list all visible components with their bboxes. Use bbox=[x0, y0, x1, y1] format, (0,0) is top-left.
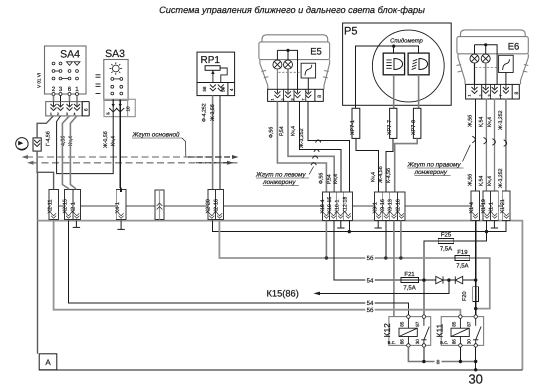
svg-text:Х9-1: Х9-1 bbox=[372, 202, 378, 213]
headlight E5 housing bbox=[259, 35, 330, 90]
wire E6 lamp2 to connector bbox=[485, 63, 487, 84]
wire K11-30 drop to 30 line bbox=[475, 347, 477, 370]
wire ground rail (gray) bbox=[38, 221, 523, 370]
indicator icon high beam bbox=[408, 53, 429, 75]
svg-text:Система управления ближнего и: Система управления ближнего и дальнего с… bbox=[159, 5, 425, 15]
wire corrector to pin7 bbox=[307, 78, 309, 89]
E6 pin numbers bbox=[468, 95, 503, 97]
svg-text:Х12-18: Х12-18 bbox=[342, 197, 348, 214]
wire K12-30 drop bbox=[423, 347, 425, 361]
ground point symbol (body mass circle) bbox=[16, 138, 28, 150]
svg-text:Х2-15: Х2-15 bbox=[63, 199, 69, 213]
svg-text:10: 10 bbox=[126, 106, 131, 112]
node on 30 line bbox=[474, 368, 477, 371]
label 5b upper bbox=[365, 254, 374, 262]
SA4 pin stubs bbox=[54, 96, 78, 102]
svg-text:F21: F21 bbox=[404, 271, 415, 278]
svg-text:7: 7 bbox=[499, 95, 503, 97]
svg-text:Кч,4: Кч,4 bbox=[487, 176, 493, 186]
K11 pins bbox=[459, 315, 478, 347]
node on 8 line (K11-86) bbox=[459, 360, 462, 363]
wire X2-15 54 line to K12 pin85 bbox=[68, 221, 408, 315]
svg-text:Ж,5б: Ж,5б bbox=[468, 115, 474, 127]
label 5b lower bbox=[365, 306, 374, 314]
wire 8 line (coil grounds) bbox=[408, 347, 475, 361]
svg-text:F20: F20 bbox=[462, 291, 468, 301]
connector under SA3 bbox=[104, 99, 135, 116]
wire K11-86 drop bbox=[459, 347, 461, 361]
label 8 bbox=[435, 358, 442, 366]
ground below X2-1 bbox=[73, 221, 80, 228]
ground zone box A bbox=[39, 354, 57, 370]
svg-text:1: 1 bbox=[468, 95, 472, 97]
svg-text:RP1: RP1 bbox=[201, 55, 221, 66]
fuse F25 bbox=[438, 232, 454, 253]
indicator icon low beam bbox=[383, 53, 404, 75]
connector X10-1 bbox=[334, 192, 344, 221]
SA4 pin circles bbox=[52, 93, 79, 96]
ground below X9-1 bbox=[375, 221, 382, 228]
wire X9-13 to K12 bbox=[393, 221, 395, 317]
lamp E6 high beam bbox=[481, 54, 490, 63]
fuse F20 bbox=[462, 287, 479, 302]
svg-text:Ж-3,252: Ж-3,252 bbox=[299, 128, 305, 148]
svg-text:Ж-3,252: Ж-3,252 bbox=[498, 168, 504, 188]
svg-text:1: 1 bbox=[50, 112, 52, 116]
svg-text:Х2-16: Х2-16 bbox=[214, 199, 220, 213]
svg-text:5б: 5б bbox=[367, 307, 374, 314]
svg-text:58: 58 bbox=[202, 86, 207, 91]
relay RP1 bbox=[197, 52, 235, 96]
wire RP1 to X2-20 bbox=[212, 96, 214, 190]
mechanical link dashed (E6) bbox=[476, 67, 499, 69]
svg-text:6: 6 bbox=[83, 108, 88, 111]
wire E6 pin7 to X1-21 bbox=[505, 98, 507, 191]
main harness black dash overlay bbox=[188, 157, 232, 163]
svg-text:ХР7-8: ХР7-8 bbox=[411, 120, 417, 135]
E5 connector bbox=[268, 89, 324, 101]
svg-text:К-4,5б: К-4,5б bbox=[386, 168, 392, 183]
svg-text:Р5: Р5 bbox=[344, 26, 357, 38]
leader line (main harness) bbox=[182, 138, 186, 157]
wire X10-15 54 line through F21 to diode bbox=[334, 221, 436, 281]
wire body line 30 bbox=[39, 369, 522, 371]
wire XP7-8 to X9-13 bbox=[395, 138, 418, 192]
connector X1-1 bbox=[488, 191, 498, 221]
wire E6 pin3 to X1-1 bbox=[494, 98, 496, 191]
svg-text:ХР7-1: ХР7-1 bbox=[350, 120, 356, 135]
wire icon2 to XP7-8 bbox=[418, 75, 420, 109]
wire XP7-7 to X9-16 bbox=[386, 138, 393, 192]
switch SA3 bbox=[104, 48, 128, 100]
svg-text:Кч,4: Кч,4 bbox=[487, 117, 493, 127]
SA3 position marks bbox=[96, 75, 101, 94]
svg-text:3: 3 bbox=[66, 112, 68, 116]
inline connector (chevron up) bbox=[155, 190, 164, 220]
E6 lamp wires and node bbox=[475, 45, 498, 85]
svg-text:54: 54 bbox=[367, 300, 374, 307]
label 54 upper bbox=[365, 277, 374, 285]
wire E5 pin2 to X10-15 bbox=[288, 101, 334, 191]
svg-text:85: 85 bbox=[399, 321, 404, 327]
wire X2-16 drop to 5b line bbox=[400, 221, 402, 258]
main harness dashed lines bbox=[26, 157, 238, 163]
svg-text:5б: 5б bbox=[221, 87, 226, 92]
SA3 connector pin arrows and chevrons bbox=[109, 99, 124, 112]
svg-text:К,54: К,54 bbox=[479, 117, 485, 127]
SA3 lamp symbol bbox=[110, 62, 123, 75]
svg-text:30: 30 bbox=[467, 339, 472, 345]
node X12-18 on corrector feed bbox=[348, 230, 351, 233]
svg-text:2: 2 bbox=[57, 112, 59, 116]
headlight E6 housing bbox=[457, 30, 529, 85]
svg-text:85: 85 bbox=[451, 321, 456, 327]
svg-text:Г-4,5б: Г-4,5б bbox=[46, 131, 52, 146]
svg-text:V 01 VI: V 01 VI bbox=[37, 73, 42, 88]
svg-text:К,54: К,54 bbox=[479, 176, 485, 186]
harness bundle marks (left) bbox=[311, 140, 321, 165]
lamp E6 low beam bbox=[470, 54, 479, 63]
SA4 pin numbers 2 3 6 1 bbox=[52, 86, 80, 93]
svg-text:К11: К11 bbox=[434, 323, 444, 337]
harness bundle marks (right) bbox=[472, 136, 506, 146]
svg-text:54: 54 bbox=[367, 277, 374, 284]
E5 connector chevrons bbox=[274, 89, 311, 98]
svg-text:7: 7 bbox=[301, 99, 305, 101]
wire P5 internal feed bbox=[355, 46, 418, 108]
node X9-16 on 5b bbox=[384, 256, 387, 259]
node (E6 lamp junction) bbox=[484, 43, 487, 46]
svg-text:87: 87 bbox=[415, 321, 420, 327]
wire E5 pin3 to X10-1 bbox=[300, 101, 341, 191]
svg-text:А: А bbox=[45, 358, 51, 367]
svg-text:Х2-20: Х2-20 bbox=[206, 199, 212, 213]
wire SA4 pin1 to X2-1 bbox=[70, 116, 77, 190]
instrument cluster P5 bbox=[343, 23, 452, 105]
connector XP7-8 bbox=[411, 108, 421, 138]
wire SA4 pin3 stub bbox=[60, 96, 62, 102]
svg-text:86: 86 bbox=[451, 339, 456, 345]
lamp E5 high beam bbox=[284, 60, 293, 69]
svg-text:Ф-4,252: Ф-4,252 bbox=[202, 103, 208, 122]
svg-text:Жгут основной: Жгут основной bbox=[132, 132, 181, 139]
label Жгут по правому лонжерону bbox=[407, 162, 464, 177]
SA4 contact grid bbox=[52, 62, 80, 80]
svg-text:F19: F19 bbox=[457, 249, 468, 256]
wire E5 pin7 to X12-18 bbox=[308, 101, 350, 191]
svg-text:Х10-15: Х10-15 bbox=[327, 197, 333, 214]
wire lamp1 to connector bbox=[276, 69, 278, 89]
connector X10-4 bbox=[320, 192, 330, 221]
svg-text:Ж-0,5б: Ж-0,5б bbox=[103, 131, 109, 148]
wire X1-19 drop bbox=[486, 221, 488, 232]
node F21 line on K12-87 vertical bbox=[422, 278, 425, 281]
svg-text:Х9-13: Х9-13 bbox=[388, 199, 394, 213]
svg-text:30: 30 bbox=[415, 339, 420, 345]
svg-text:Ж-3,252: Ж-3,252 bbox=[498, 110, 504, 130]
wire to K15(86) reference bbox=[319, 280, 449, 293]
label Жгут основной bbox=[132, 132, 183, 139]
wire XP7-1 to X9-1 bbox=[356, 138, 379, 192]
wire bus line (black) bbox=[49, 205, 506, 207]
svg-text:Х4-1: Х4-1 bbox=[115, 202, 121, 213]
fuse F19 bbox=[455, 249, 470, 270]
wire X1-4 to F20 and K11 pin87 bbox=[475, 221, 477, 315]
svg-text:Спидометр: Спидометр bbox=[390, 37, 423, 44]
connector X2-16 bbox=[395, 192, 405, 221]
connector X (mass wire) bbox=[33, 138, 41, 151]
svg-text:Х1-4: Х1-4 bbox=[469, 202, 475, 213]
svg-text:Ж-4,5б: Ж-4,5б bbox=[378, 166, 384, 183]
mechanical link dashed (E5) bbox=[278, 71, 301, 73]
node on 8 line bbox=[422, 360, 425, 363]
diode VD1 bbox=[436, 276, 456, 283]
svg-text:Р,54: Р,54 bbox=[326, 174, 332, 184]
svg-text:Х2-11: Х2-11 bbox=[48, 200, 54, 214]
connector chevrons under SA4 bbox=[51, 102, 81, 111]
svg-text:7,5А: 7,5А bbox=[456, 263, 468, 270]
svg-text:Х1-19: Х1-19 bbox=[481, 199, 487, 213]
wire SA4 pin2 to mass connector and X2-11 bbox=[37, 116, 54, 190]
ground below X10-1 bbox=[337, 221, 344, 228]
wire E6 pin2 to X1-19 bbox=[485, 98, 487, 191]
wire SA4 pin3 to SA3 (via bottom link) bbox=[57, 99, 114, 173]
svg-text:2: 2 bbox=[52, 86, 56, 93]
svg-text:К12: К12 bbox=[382, 323, 392, 338]
K12 pins bbox=[407, 315, 426, 347]
node between diodes bbox=[447, 278, 450, 281]
svg-text:2: 2 bbox=[281, 99, 285, 101]
svg-text:лонжерону: лонжерону bbox=[262, 179, 296, 186]
K12 contact bbox=[421, 318, 429, 343]
wire X10-4 drop to 5b line bbox=[325, 221, 327, 258]
svg-text:Ф,5б: Ф,5б bbox=[319, 173, 325, 184]
ground below X1-1 bbox=[491, 221, 498, 228]
svg-text:Ж,5б: Ж,5б bbox=[468, 174, 474, 186]
wire X2-20 5b line through F19 to K11 pin87 bbox=[219, 221, 489, 309]
svg-text:К15(86): К15(86) bbox=[267, 288, 299, 298]
relay K12 bbox=[389, 317, 431, 346]
node X1-19 junction bbox=[485, 230, 488, 233]
svg-text:Х9-16: Х9-16 bbox=[380, 199, 386, 213]
connector X2-15 bbox=[63, 190, 73, 220]
svg-text:8: 8 bbox=[317, 95, 323, 98]
diode VD2 bbox=[455, 276, 475, 283]
svg-text:2: 2 bbox=[479, 95, 483, 97]
svg-text:4: 4 bbox=[74, 112, 76, 116]
connector X2-11 bbox=[48, 190, 59, 220]
svg-text:Р,54: Р,54 bbox=[279, 126, 285, 136]
wire X2-56 line to X1-21 (corrector feed) bbox=[213, 221, 506, 232]
svg-text:Х1-1: Х1-1 bbox=[488, 202, 494, 213]
connector X9-16 bbox=[380, 192, 390, 221]
relay K11 bbox=[441, 317, 483, 346]
svg-text:в.с.: в.с. bbox=[388, 340, 396, 346]
wire branch through F25 to K12 pin87 bbox=[424, 232, 487, 315]
fuse F21 bbox=[401, 271, 419, 292]
E6 connector bbox=[466, 84, 520, 99]
svg-text:3: 3 bbox=[59, 86, 63, 93]
connector X12-18 bbox=[342, 192, 352, 221]
K15(86) arrowhead bbox=[314, 292, 321, 296]
wire RP1 to X2-56 bbox=[219, 96, 221, 190]
RP1 connector chevrons bbox=[210, 85, 224, 92]
wire X9-16 drop to 5b line bbox=[385, 221, 387, 258]
SA3 tiny pin marks bbox=[106, 112, 110, 116]
node 5b loop on K11-87 vertical bbox=[474, 307, 477, 310]
svg-text:Кч,4: Кч,4 bbox=[291, 126, 297, 136]
svg-text:х5: х5 bbox=[106, 112, 110, 116]
svg-text:7,5А: 7,5А bbox=[440, 245, 452, 252]
leader line (left harness label) bbox=[309, 167, 314, 175]
corrector E5 bbox=[301, 63, 316, 78]
wire icon1 to XP7-7 bbox=[393, 75, 395, 109]
connector X2-20 bbox=[206, 190, 216, 220]
K11 contact bbox=[473, 318, 481, 343]
K11 coil bbox=[451, 318, 469, 343]
harness arrowheads bbox=[22, 155, 29, 159]
wire SA3 to X4-1 bbox=[119, 99, 122, 192]
connector X4-1 bbox=[115, 190, 126, 220]
connector XP7-7 bbox=[387, 108, 397, 138]
connector X2-56 bbox=[214, 190, 224, 220]
connector X1-19 bbox=[481, 191, 491, 221]
svg-text:30: 30 bbox=[468, 371, 482, 386]
connector X7 under SA4 bbox=[46, 102, 89, 116]
E6 connector chevrons bbox=[472, 84, 509, 93]
svg-text:SA3: SA3 bbox=[105, 48, 125, 60]
svg-text:5б: 5б bbox=[367, 255, 374, 262]
E5 pin numbers bbox=[271, 99, 306, 101]
K12 coil bbox=[399, 318, 417, 343]
svg-text:1: 1 bbox=[271, 99, 275, 101]
leader line (right harness label) bbox=[463, 145, 471, 162]
svg-text:8: 8 bbox=[514, 92, 520, 95]
corrector E6 bbox=[499, 55, 514, 72]
connector X10-15 bbox=[327, 192, 337, 221]
svg-text:E6: E6 bbox=[508, 42, 520, 53]
svg-text:86: 86 bbox=[399, 339, 404, 345]
svg-text:SA4: SA4 bbox=[60, 49, 80, 61]
wire ground rail left vertical bbox=[37, 172, 39, 353]
ground below X4-1 bbox=[117, 221, 124, 230]
svg-text:лонжерону: лонжерону bbox=[414, 169, 448, 176]
svg-text:4,5б: 4,5б bbox=[60, 136, 66, 146]
wire SA4 pin6 to X2-15 bbox=[62, 116, 69, 190]
lamp E5 low beam bbox=[273, 60, 282, 69]
connector X2-1 bbox=[71, 190, 81, 220]
svg-text:6: 6 bbox=[68, 86, 72, 93]
svg-text:Кч,4: Кч,4 bbox=[371, 172, 377, 182]
wire X12-18 drop bbox=[348, 221, 350, 232]
svg-text:4: 4 bbox=[229, 88, 234, 91]
SA3 contacts bbox=[111, 78, 123, 95]
label 54 lower bbox=[365, 299, 374, 307]
wire E6 corrector to pin7 bbox=[505, 73, 507, 85]
wire X2-11 5b line to K11 pin85 bbox=[54, 221, 461, 315]
connector XP7-1 bbox=[350, 108, 360, 138]
svg-text:3: 3 bbox=[488, 95, 492, 97]
connector tiny pin marks bbox=[50, 112, 76, 116]
connector X9-1 bbox=[372, 192, 382, 221]
svg-text:Жгут по правому: Жгут по правому bbox=[407, 162, 462, 169]
E5 lamp wires and node bbox=[277, 50, 297, 89]
node X10-4 on 5b bbox=[325, 256, 328, 259]
svg-text:E5: E5 bbox=[310, 47, 322, 58]
label Жгут по левому лонжерону bbox=[255, 172, 309, 187]
wire E6 pin1 to X1-4 bbox=[474, 98, 476, 191]
connector X9-13 bbox=[388, 192, 398, 221]
wire lamp2 to connector bbox=[287, 69, 289, 89]
svg-text:1: 1 bbox=[75, 86, 79, 93]
svg-text:F25: F25 bbox=[441, 232, 452, 239]
switch SA4 bbox=[37, 46, 86, 94]
speedometer circle bbox=[372, 30, 444, 102]
connector X1-21 bbox=[500, 191, 510, 221]
svg-text:87: 87 bbox=[467, 321, 472, 327]
connector X1-4 bbox=[469, 191, 479, 221]
svg-text:в.с.: в.с. bbox=[440, 340, 448, 346]
svg-text:Ж-3,5б: Ж-3,5б bbox=[210, 104, 216, 121]
svg-text:ХР7-7: ХР7-7 bbox=[387, 120, 393, 135]
svg-text:Жгут по левому: Жгут по левому bbox=[255, 172, 306, 179]
svg-text:7,5А: 7,5А bbox=[403, 285, 415, 292]
svg-text:Х2-1: Х2-1 bbox=[71, 202, 77, 213]
node on 8 line (K11-30) bbox=[474, 360, 477, 363]
svg-text:Х10-4: Х10-4 bbox=[320, 200, 326, 214]
svg-text:Х1-21: Х1-21 bbox=[500, 199, 506, 213]
svg-text:Х10-1: Х10-1 bbox=[334, 200, 340, 214]
wire E5 pin1 to X10-4 bbox=[277, 101, 326, 191]
node X2-16 on 5b bbox=[399, 256, 402, 259]
wire E6 lamp1 to connector bbox=[474, 63, 476, 84]
svg-text:Ф,5б: Ф,5б bbox=[268, 127, 274, 138]
svg-text:Х2-16: Х2-16 bbox=[395, 199, 401, 213]
svg-text:3: 3 bbox=[291, 99, 295, 101]
node (E5 lamp junction) bbox=[286, 49, 289, 52]
node diode2 on K11-87 vertical bbox=[474, 278, 477, 281]
svg-text:Кч,4: Кч,4 bbox=[333, 174, 339, 184]
node (P5) bbox=[392, 45, 395, 48]
